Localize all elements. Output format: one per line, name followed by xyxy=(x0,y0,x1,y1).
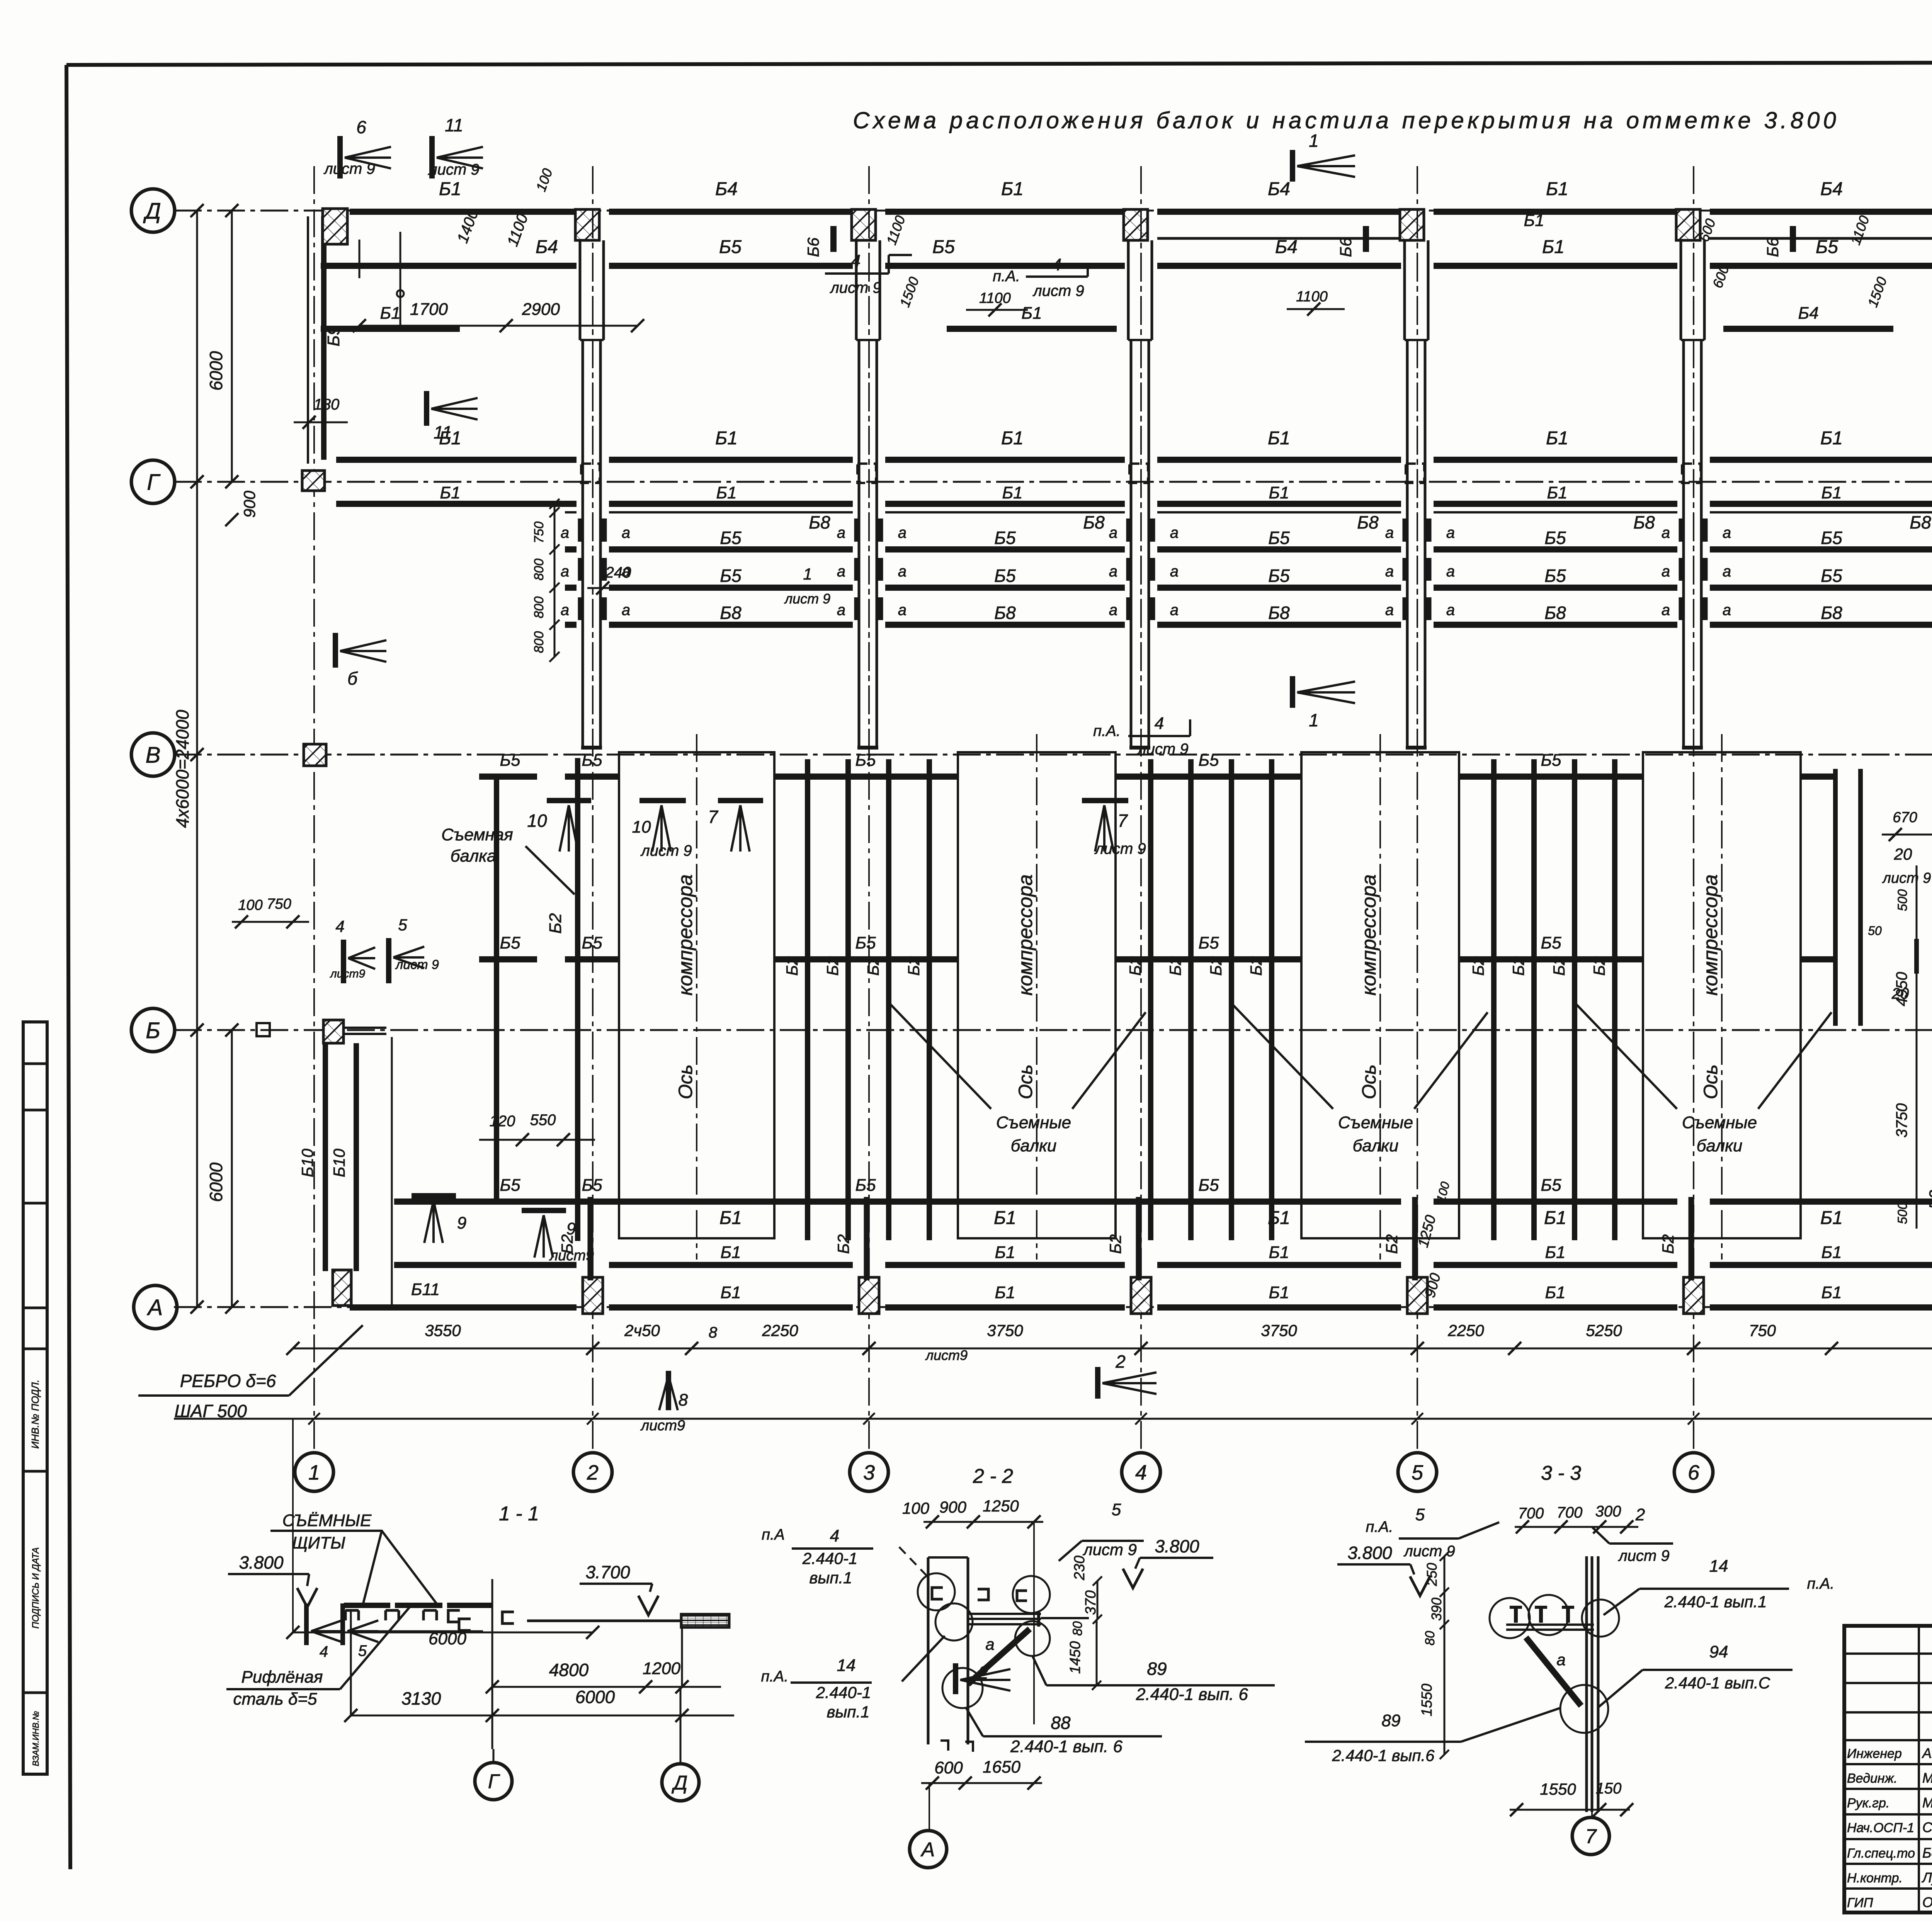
svg-text:1: 1 xyxy=(1309,131,1319,151)
svg-text:1: 1 xyxy=(308,1461,320,1484)
svg-text:6000: 6000 xyxy=(206,1162,226,1202)
svg-text:лист9: лист9 xyxy=(925,1347,968,1363)
svg-text:Б1: Б1 xyxy=(1546,179,1568,199)
svg-text:Б5: Б5 xyxy=(1198,933,1219,952)
svg-text:2.440-1 вып.1: 2.440-1 вып.1 xyxy=(1664,1593,1767,1611)
svg-text:Рифлёная: Рифлёная xyxy=(241,1668,323,1686)
svg-text:2: 2 xyxy=(1115,1351,1126,1372)
svg-text:лист 9: лист 9 xyxy=(1094,840,1146,857)
svg-text:п.А.: п.А. xyxy=(993,268,1020,285)
svg-text:Б4: Б4 xyxy=(715,179,738,199)
svg-text:Б6: Б6 xyxy=(1764,237,1782,257)
beam cluster Б2 group 2 xyxy=(1126,759,1272,1240)
svg-text:а: а xyxy=(837,563,845,580)
svg-text:2: 2 xyxy=(1635,1505,1645,1524)
svg-text:Гл.спец.то: Гл.спец.то xyxy=(1847,1846,1915,1861)
svg-text:Съемная: Съемная xyxy=(441,825,513,844)
svg-text:240: 240 xyxy=(605,564,631,581)
svg-text:Ось: Ось xyxy=(675,1064,696,1099)
svg-text:Б1: Б1 xyxy=(1820,428,1843,449)
svg-text:14: 14 xyxy=(837,1656,856,1675)
svg-text:лист 9: лист 9 xyxy=(323,160,375,177)
svg-text:Съемные: Съемные xyxy=(1338,1113,1413,1132)
svg-text:1550: 1550 xyxy=(1419,1684,1435,1717)
svg-text:Б1: Б1 xyxy=(1268,428,1290,449)
svg-text:1: 1 xyxy=(1309,710,1319,730)
section 3-3 xyxy=(1305,1462,1834,1855)
dim 1700/2900 xyxy=(353,166,644,332)
rib double line row Б bay1 xyxy=(344,1027,386,1029)
beam Б4/Б5 second line row Д xyxy=(321,263,577,269)
svg-text:88: 88 xyxy=(1051,1713,1071,1733)
thin post bay1 xyxy=(391,1037,393,1307)
svg-text:4: 4 xyxy=(1155,714,1164,733)
beam cluster Б2 group 1 xyxy=(783,759,929,1240)
column strip at axis 2 xyxy=(575,209,604,753)
svg-text:Б8: Б8 xyxy=(809,512,830,532)
svg-text:Б5: Б5 xyxy=(994,566,1016,586)
svg-text:600: 600 xyxy=(934,1758,963,1777)
svg-text:Б1: Б1 xyxy=(720,1283,741,1302)
svg-text:2250: 2250 xyxy=(762,1321,798,1340)
svg-text:Б1: Б1 xyxy=(1545,1243,1565,1262)
svg-text:а: а xyxy=(622,602,630,619)
svg-text:Б8: Б8 xyxy=(994,603,1016,623)
svg-text:89: 89 xyxy=(1382,1711,1401,1730)
beam Б5 row y=2483 xyxy=(479,956,537,962)
long line below dims xyxy=(174,1418,1932,1420)
svg-text:Б1: Б1 xyxy=(1001,179,1024,199)
svg-text:Б1: Б1 xyxy=(1269,1243,1289,1262)
beam Б1 bottom line 1 xyxy=(394,1198,577,1205)
svg-text:3750: 3750 xyxy=(987,1321,1023,1340)
beam Б9 left vertical xyxy=(321,216,327,460)
svg-text:РЕБРО δ=6: РЕБРО δ=6 xyxy=(180,1371,276,1391)
removable beam Б2 far-left xyxy=(494,777,499,1202)
svg-text:Б8: Б8 xyxy=(1357,512,1379,532)
svg-text:3.800: 3.800 xyxy=(239,1552,284,1572)
columns at row В hatched xyxy=(304,744,326,766)
svg-text:а: а xyxy=(561,602,569,619)
beam Б5 row y=2010 xyxy=(479,773,537,780)
svg-text:Б1: Б1 xyxy=(1002,483,1022,502)
svg-text:700: 700 xyxy=(1518,1505,1544,1522)
svg-text:2.440-1 вып. 6: 2.440-1 вып. 6 xyxy=(1010,1737,1122,1756)
svg-text:Луценко: Луценко xyxy=(1922,1870,1932,1885)
svg-text:Б5: Б5 xyxy=(1198,1176,1219,1195)
svg-text:ЩИТЫ: ЩИТЫ xyxy=(292,1533,345,1552)
beam cluster Б2 group 3 xyxy=(1469,759,1615,1240)
beam Б1/Б11 on axis А xyxy=(350,1304,577,1311)
svg-text:а: а xyxy=(1170,602,1179,619)
ref flag 1/лист9 in band xyxy=(777,565,835,607)
svg-text:4: 4 xyxy=(1052,255,1061,274)
svg-text:а: а xyxy=(898,524,906,541)
svg-text:Б1: Б1 xyxy=(1546,428,1568,449)
Б2 stub verticals in band at columns xyxy=(578,518,583,542)
dims 100/750 row Б left xyxy=(232,896,309,928)
svg-text:балки: балки xyxy=(1011,1136,1057,1155)
section 1-1 xyxy=(226,1503,734,1801)
rotated dims 4950/3750/500 right xyxy=(1893,865,1917,1229)
row А hatched columns xyxy=(333,1270,351,1306)
svg-text:а: а xyxy=(1723,602,1731,619)
svg-text:5250: 5250 xyxy=(1586,1321,1622,1340)
svg-text:2.440-1 вып.6: 2.440-1 вып.6 xyxy=(1332,1746,1435,1765)
svg-text:3750: 3750 xyxy=(1893,1103,1910,1138)
svg-text:Саакьянц: Саакьянц xyxy=(1922,1819,1932,1835)
svg-text:Б1: Б1 xyxy=(1269,483,1289,502)
beam band Б5/Б5/Б8 rows xyxy=(565,546,577,552)
section marker 1 top xyxy=(1293,131,1355,182)
svg-text:4: 4 xyxy=(1135,1461,1147,1484)
section marker 1 mid xyxy=(1293,676,1355,730)
svg-text:А: А xyxy=(920,1839,935,1861)
svg-text:10: 10 xyxy=(632,818,651,836)
svg-text:Инженер: Инженер xyxy=(1847,1746,1902,1761)
svg-text:Б5: Б5 xyxy=(1541,1176,1561,1195)
svg-text:ГИП: ГИП xyxy=(1847,1895,1873,1910)
svg-text:6000: 6000 xyxy=(575,1687,615,1707)
removable beam Б2 left single xyxy=(575,758,580,1241)
svg-text:Б5: Б5 xyxy=(1268,566,1290,586)
columns at row Г hatched xyxy=(302,471,325,491)
svg-text:Б5: Б5 xyxy=(1544,528,1566,548)
svg-text:5: 5 xyxy=(398,916,407,934)
svg-text:6000: 6000 xyxy=(429,1629,466,1648)
svg-text:1 - 1: 1 - 1 xyxy=(499,1503,539,1525)
svg-text:Вединж.: Вединж. xyxy=(1847,1771,1897,1786)
svg-text:а: а xyxy=(561,563,569,580)
svg-text:А: А xyxy=(147,1295,163,1320)
compressor outline 2 xyxy=(958,734,1116,1260)
svg-text:Б1: Б1 xyxy=(380,304,400,323)
svg-text:Б5: Б5 xyxy=(500,933,520,952)
thin deck line below Г xyxy=(565,511,577,513)
section marker б lower-left xyxy=(335,633,386,688)
svg-text:лист9: лист9 xyxy=(330,967,366,980)
svg-text:Б4: Б4 xyxy=(536,237,558,257)
column axis 3 xyxy=(850,166,888,1491)
svg-text:Б1: Б1 xyxy=(1547,483,1567,502)
svg-text:Б8: Б8 xyxy=(1544,603,1566,623)
svg-text:сталь δ=5: сталь δ=5 xyxy=(233,1690,317,1708)
svg-text:Б5: Б5 xyxy=(1541,751,1561,770)
svg-text:Б1: Б1 xyxy=(995,1243,1015,1262)
svg-text:Б: Б xyxy=(146,1018,160,1043)
svg-text:1: 1 xyxy=(803,565,812,583)
section marker 2 mid xyxy=(1098,1351,1156,1399)
svg-text:80: 80 xyxy=(1070,1621,1085,1636)
svg-text:94: 94 xyxy=(1709,1642,1728,1661)
ребро/шаг note xyxy=(138,1325,363,1421)
svg-text:6: 6 xyxy=(356,117,366,137)
svg-text:Андреева: Андреева xyxy=(1922,1745,1932,1761)
verticals right of compressor 4 xyxy=(1833,769,1838,1026)
svg-text:а: а xyxy=(1662,563,1670,580)
svg-text:Б1: Б1 xyxy=(1821,1243,1842,1262)
svg-text:Б1: Б1 xyxy=(1001,428,1024,449)
svg-text:Б4: Б4 xyxy=(1268,179,1290,199)
svg-text:п.А.: п.А. xyxy=(1807,1575,1835,1592)
svg-text:Б5: Б5 xyxy=(855,751,876,770)
svg-text:Б5: Б5 xyxy=(1541,933,1561,952)
row axis Д xyxy=(174,210,1932,212)
svg-text:14: 14 xyxy=(1709,1557,1728,1576)
open square node row Б bay1 xyxy=(257,1023,270,1036)
columns at row Б col1/col9 xyxy=(323,1020,344,1043)
svg-text:89: 89 xyxy=(1147,1659,1167,1679)
svg-text:Б8: Б8 xyxy=(1268,603,1290,623)
section marker 9/лист9 xyxy=(522,1210,594,1264)
svg-text:900: 900 xyxy=(240,490,259,518)
svg-text:500: 500 xyxy=(1895,1202,1910,1224)
svg-text:Схема расположения балок и: Схема расположения балок и настила перек… xyxy=(853,107,1839,133)
svg-text:230: 230 xyxy=(1071,1555,1088,1580)
bottom dim row segments xyxy=(286,1321,1932,1363)
svg-text:лист 9: лист 9 xyxy=(1882,870,1931,886)
svg-text:Б1: Б1 xyxy=(440,483,460,502)
svg-text:Н.контр.: Н.контр. xyxy=(1847,1871,1903,1885)
svg-text:ВЗАМ.ИНВ.№: ВЗАМ.ИНВ.№ xyxy=(31,1711,41,1766)
svg-text:Д: Д xyxy=(672,1772,688,1794)
svg-text:а: а xyxy=(898,563,906,580)
svg-text:лист 9: лист 9 xyxy=(428,161,479,178)
svg-text:390: 390 xyxy=(1429,1598,1444,1621)
svg-text:Мягченов: Мягченов xyxy=(1922,1795,1932,1810)
column strip at axis 3 xyxy=(852,209,880,753)
svg-text:2.440-1: 2.440-1 xyxy=(802,1549,857,1567)
column strip at axis 5 xyxy=(1400,209,1428,753)
svg-text:4х6000=24000: 4х6000=24000 xyxy=(172,710,192,828)
svg-text:Б8: Б8 xyxy=(1821,603,1842,623)
svg-text:550: 550 xyxy=(530,1112,556,1129)
svg-text:СЪЁМНЫЕ: СЪЁМНЫЕ xyxy=(282,1511,372,1530)
Съемная балка label xyxy=(441,825,575,894)
svg-text:2ч50: 2ч50 xyxy=(624,1321,660,1340)
left form strip boxes xyxy=(23,1022,47,1774)
svg-text:ИНВ.№ ПОДЛ.: ИНВ.№ ПОДЛ. xyxy=(29,1380,41,1449)
svg-text:Б6: Б6 xyxy=(1337,237,1355,257)
svg-text:балка: балка xyxy=(451,847,497,865)
svg-text:лист 9: лист 9 xyxy=(784,591,830,607)
svg-text:670: 670 xyxy=(1893,809,1917,826)
left dimension lines xyxy=(172,204,259,1314)
svg-text:Б10: Б10 xyxy=(330,1148,348,1177)
svg-text:2 - 2: 2 - 2 xyxy=(973,1465,1013,1487)
svg-text:Б8: Б8 xyxy=(1633,512,1655,532)
svg-text:150: 150 xyxy=(1596,1780,1622,1797)
svg-text:5: 5 xyxy=(1415,1505,1425,1524)
svg-text:Б2: Б2 xyxy=(834,1234,852,1254)
compressor outline 1 xyxy=(619,734,774,1260)
svg-text:Осташевский: Осташевский xyxy=(1922,1894,1932,1910)
svg-text:Б1: Б1 xyxy=(719,1208,742,1228)
svg-text:а: а xyxy=(561,524,569,541)
column axis 2 xyxy=(573,166,612,1491)
svg-text:20: 20 xyxy=(1894,845,1912,863)
section marker 20/лист9 xyxy=(1868,809,1932,1002)
svg-text:Б5: Б5 xyxy=(720,566,742,586)
row axis А xyxy=(174,1306,1932,1308)
svg-text:5: 5 xyxy=(358,1642,367,1659)
row axis В xyxy=(174,754,1932,756)
Съемные балки labels xyxy=(891,1005,1146,1155)
svg-text:Б1: Б1 xyxy=(716,483,736,502)
svg-text:В: В xyxy=(146,743,161,768)
section 2-2 xyxy=(761,1465,1275,1868)
svg-text:1450: 1450 xyxy=(1067,1641,1083,1674)
svg-text:5: 5 xyxy=(1412,1461,1423,1484)
svg-text:балки: балки xyxy=(1353,1136,1399,1155)
svg-text:Б10: Б10 xyxy=(298,1148,316,1177)
svg-text:компрессора: компрессора xyxy=(1358,874,1380,996)
svg-text:800: 800 xyxy=(532,631,546,653)
svg-text:Б1: Б1 xyxy=(715,428,738,449)
svg-text:Б5: Б5 xyxy=(1268,528,1290,548)
svg-text:80: 80 xyxy=(1423,1631,1437,1646)
column Д-1 hatched xyxy=(323,209,347,244)
svg-text:2.440-1: 2.440-1 xyxy=(816,1683,871,1702)
svg-text:Б1: Б1 xyxy=(1820,1208,1843,1228)
svg-text:Б5: Б5 xyxy=(582,1176,602,1195)
svg-text:Б6: Б6 xyxy=(804,237,822,257)
svg-text:2: 2 xyxy=(587,1461,599,1484)
row axis Б xyxy=(174,1029,1932,1031)
svg-text:п.А: п.А xyxy=(762,1526,785,1543)
section marker 2 bottom xyxy=(956,1663,1010,1694)
svg-text:а: а xyxy=(1109,524,1117,541)
svg-text:Б11: Б11 xyxy=(411,1280,440,1299)
Б2 stubs at bottom band columns xyxy=(588,1197,594,1280)
svg-text:250: 250 xyxy=(1424,1563,1440,1586)
svg-text:Ось: Ось xyxy=(1358,1064,1380,1099)
main title block xyxy=(1844,1626,1932,1912)
section marker 10/лист9 xyxy=(632,801,692,859)
svg-text:3130: 3130 xyxy=(401,1688,441,1708)
svg-text:лист9: лист9 xyxy=(640,1418,685,1434)
column strip at axis 4 xyxy=(1124,209,1152,753)
svg-text:Б5: Б5 xyxy=(994,528,1016,548)
svg-text:Б5: Б5 xyxy=(932,237,955,257)
svg-text:Б5: Б5 xyxy=(719,237,742,257)
svg-text:7: 7 xyxy=(1117,811,1128,831)
svg-text:2250: 2250 xyxy=(1447,1321,1484,1340)
svg-text:а: а xyxy=(1723,563,1731,580)
svg-text:а: а xyxy=(837,602,845,619)
section marker 9 xyxy=(412,1196,466,1243)
beam Б1 above axis Г xyxy=(336,457,577,463)
svg-text:1700: 1700 xyxy=(410,300,448,319)
ref п.А 4/лист9 below band xyxy=(1093,714,1190,758)
compressor outline 3 xyxy=(1301,734,1459,1260)
svg-text:а: а xyxy=(622,524,630,541)
svg-text:180: 180 xyxy=(314,396,340,413)
section marker 11 top xyxy=(428,115,483,178)
svg-text:ПОДПИСЬ И ДАТА: ПОДПИСЬ И ДАТА xyxy=(31,1547,41,1629)
svg-text:6000: 6000 xyxy=(206,351,226,391)
svg-text:Б5: Б5 xyxy=(1544,566,1566,586)
section marker 6 top xyxy=(323,117,391,178)
svg-text:3: 3 xyxy=(863,1461,875,1484)
svg-text:компрессора: компрессора xyxy=(1014,874,1037,996)
svg-text:Б2: Б2 xyxy=(546,913,565,933)
svg-text:Б5: Б5 xyxy=(855,1176,876,1195)
svg-text:Б5: Б5 xyxy=(582,751,602,770)
svg-text:Б5: Б5 xyxy=(500,751,520,770)
compressor outline 4 xyxy=(1643,734,1801,1260)
svg-text:а: а xyxy=(1662,602,1670,619)
svg-text:Б1: Б1 xyxy=(1544,1208,1566,1228)
svg-text:а: а xyxy=(1170,563,1179,580)
svg-text:Б5: Б5 xyxy=(1821,528,1842,548)
svg-text:Б2: Б2 xyxy=(1383,1234,1401,1254)
svg-text:3.700: 3.700 xyxy=(585,1562,630,1582)
svg-text:а: а xyxy=(1385,602,1394,619)
svg-text:2.440-1 вып. 6: 2.440-1 вып. 6 xyxy=(1136,1685,1248,1704)
svg-text:800: 800 xyxy=(532,559,546,581)
section marker 8/лист9 xyxy=(640,1371,688,1434)
svg-text:4: 4 xyxy=(335,917,344,935)
svg-text:п.А.: п.А. xyxy=(1093,722,1121,739)
column ticks on lower line xyxy=(308,1413,1932,1425)
svg-text:1100: 1100 xyxy=(979,290,1011,306)
svg-text:10: 10 xyxy=(527,811,547,831)
dim 6000 bay1-2 bottom xyxy=(286,1419,599,1660)
svg-text:лист 9: лист 9 xyxy=(1082,1540,1137,1559)
svg-text:4: 4 xyxy=(830,1527,839,1545)
svg-text:300: 300 xyxy=(1595,1503,1621,1520)
svg-text:7: 7 xyxy=(1585,1826,1597,1848)
svg-text:Ось: Ось xyxy=(1700,1064,1721,1099)
svg-text:Б1: Б1 xyxy=(1821,1283,1842,1302)
svg-text:лист 9: лист 9 xyxy=(1403,1543,1455,1560)
column axis 1 xyxy=(295,166,333,1491)
svg-text:компрессора: компрессора xyxy=(674,874,697,996)
svg-text:Б1: Б1 xyxy=(439,179,461,199)
svg-text:лист 9: лист 9 xyxy=(1618,1547,1669,1564)
svg-text:Б1: Б1 xyxy=(1269,1283,1289,1302)
svg-text:Б1: Б1 xyxy=(720,1243,741,1262)
beams Б10 bay1 verticals xyxy=(323,1043,328,1271)
svg-text:Б1: Б1 xyxy=(995,1283,1015,1302)
svg-text:Нач.ОСП-1: Нач.ОСП-1 xyxy=(1847,1821,1914,1835)
svg-text:а: а xyxy=(1109,563,1117,580)
dim 800x3 rotated left of col2 xyxy=(532,499,560,662)
ref flag 4/лист9 top xyxy=(825,252,912,296)
svg-text:Б5: Б5 xyxy=(1816,237,1838,257)
svg-text:Б4: Б4 xyxy=(1820,179,1843,199)
svg-text:Б1: Б1 xyxy=(1021,304,1042,323)
beam Б6 short verticals row Д xyxy=(830,226,837,252)
svg-text:лист 9: лист 9 xyxy=(395,957,439,972)
svg-text:а: а xyxy=(898,602,906,619)
svg-text:Б1: Б1 xyxy=(1821,483,1842,502)
svg-text:п.А.: п.А. xyxy=(761,1668,789,1685)
svg-text:11: 11 xyxy=(445,115,463,135)
svg-text:а: а xyxy=(985,1635,994,1653)
column axis 4 xyxy=(1122,166,1160,1491)
column axis 6 xyxy=(1674,166,1713,1491)
svg-text:2900: 2900 xyxy=(522,300,560,319)
section marker 11 lower xyxy=(427,391,478,442)
svg-text:Ось: Ось xyxy=(1015,1064,1036,1099)
svg-text:а: а xyxy=(1723,524,1731,541)
svg-text:Б5: Б5 xyxy=(720,528,742,548)
svg-text:Д: Д xyxy=(143,199,161,224)
svg-text:4950: 4950 xyxy=(1893,972,1910,1006)
svg-text:1650: 1650 xyxy=(983,1758,1020,1776)
